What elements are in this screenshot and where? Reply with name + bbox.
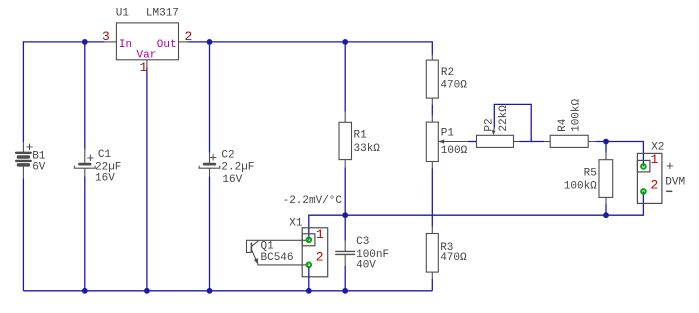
node junction C1 top rail <box>82 39 88 45</box>
connector X1 pin1 square <box>302 234 315 246</box>
potentiometer P2 body <box>477 135 514 147</box>
connector X2 pin1 square <box>637 160 650 172</box>
transistor Q1 emitter lead <box>251 250 257 265</box>
wire C2 top drop <box>209 42 211 153</box>
node ground junction Var <box>144 288 150 294</box>
wire ground bus <box>23 290 432 292</box>
svg-text:+: + <box>666 159 674 174</box>
wire R5 top from junction <box>605 142 607 153</box>
resistor R1 body <box>339 122 352 159</box>
wire R1 bottom to mid net <box>344 167 346 215</box>
wire mid net: X1 pin1 up, across to X2 pin2 <box>309 191 644 239</box>
svg-text:In: In <box>119 39 132 51</box>
wire X1 pin2 to ground bus <box>308 267 310 291</box>
node junction R1/C3 mid net <box>342 212 348 218</box>
svg-text:100Ω: 100Ω <box>441 145 468 157</box>
resistor R2 top stub <box>431 55 433 61</box>
battery B1 bottom stub <box>22 167 24 179</box>
wire U1 Var to ground bus <box>146 67 148 290</box>
capacitor C1 minus cup <box>74 166 95 168</box>
node ground junction X1 pin2 <box>306 288 312 294</box>
transistor Q1 emitter arrow <box>254 258 258 264</box>
connector X2 body <box>637 153 662 203</box>
svg-text:+: + <box>209 150 217 165</box>
resistor R2 body <box>426 60 438 98</box>
wire C3 to ground bus <box>344 266 346 291</box>
svg-text:2: 2 <box>316 249 324 264</box>
svg-text:P1: P1 <box>441 128 455 140</box>
svg-text:470Ω: 470Ω <box>440 252 467 264</box>
U1 pin stub In <box>105 41 117 43</box>
resistor R4 right stub <box>588 141 596 143</box>
resistor R5 top stub <box>605 153 607 160</box>
svg-text:33kΩ: 33kΩ <box>354 143 381 155</box>
svg-text:1: 1 <box>651 152 659 167</box>
capacitor C3 top stub <box>344 241 346 252</box>
P2 right stub <box>514 141 520 143</box>
transistor Q1 base bar <box>250 243 252 253</box>
battery B1 plates <box>15 152 32 167</box>
svg-text:16V: 16V <box>95 172 115 184</box>
wire C2 to ground bus <box>209 176 211 290</box>
potentiometer P2 wiper arrow <box>492 130 496 135</box>
svg-text:470Ω: 470Ω <box>440 80 467 92</box>
resistor R4 left stub <box>544 141 550 143</box>
capacitor C3 plate top <box>335 250 355 252</box>
svg-text:Q1: Q1 <box>261 240 275 252</box>
potentiometer P1 wiper lead <box>438 141 468 143</box>
X2 pin 2 pad <box>641 189 646 194</box>
svg-text:6V: 6V <box>32 162 46 174</box>
capacitor C2 minus cup <box>199 166 220 168</box>
op-amp U1 LM317 body <box>116 23 178 60</box>
wire R1 top drop <box>344 42 346 112</box>
X1 pin 2 pad <box>307 263 312 268</box>
wire top rail right: U1 Out to R2 <box>188 42 433 55</box>
svg-text:R4: R4 <box>557 118 569 132</box>
resistor R4 body <box>550 135 588 147</box>
connector X1 body <box>302 228 328 277</box>
wire P2 wiper loop to right end <box>494 104 531 141</box>
node junction C2 top rail <box>207 39 213 45</box>
node ground junction C1 <box>82 288 88 294</box>
svg-text:2.2µF: 2.2µF <box>221 161 254 173</box>
capacitor C1 bottom stub <box>84 168 86 176</box>
svg-text:22kΩ: 22kΩ <box>498 105 510 132</box>
svg-text:100kΩ: 100kΩ <box>571 98 583 131</box>
svg-text:1: 1 <box>316 227 324 242</box>
capacitor C2 plus plate <box>203 163 216 166</box>
capacitor C3 bottom stub <box>344 254 346 266</box>
node junction R5 bottom mid net <box>603 212 609 218</box>
U1 pin stub Out <box>179 41 188 43</box>
battery B1 top stub <box>22 142 24 152</box>
wire R4 to X2 pin1 <box>596 142 643 167</box>
potentiometer P1 top stub <box>431 116 433 123</box>
DVM minus sign <box>666 190 672 192</box>
transistor Q1 base/collector wire to X1 pin1 <box>247 240 309 252</box>
wire B1 minus to ground bus <box>22 178 24 290</box>
wire R5 bottom to mid net <box>605 205 607 216</box>
resistor R1 top stub <box>344 112 346 123</box>
wire C3 top from mid net <box>344 215 346 240</box>
svg-text:R5: R5 <box>584 168 597 180</box>
resistor R2 bottom stub <box>431 98 433 105</box>
svg-text:Out: Out <box>157 39 177 51</box>
X1 pin 1 pad <box>307 238 312 243</box>
svg-text:16V: 16V <box>222 174 242 186</box>
node junction R4/R5 <box>603 139 609 145</box>
wire C1 to ground bus <box>84 176 86 290</box>
transistor Q1 emitter wire to X1 pin2 <box>258 264 309 266</box>
svg-text:+: + <box>87 151 95 166</box>
svg-text:C1: C1 <box>98 149 112 161</box>
wire P2 to R4 <box>520 141 545 143</box>
svg-text:R2: R2 <box>441 67 454 79</box>
node ground junction C3 <box>342 288 348 294</box>
potentiometer P1 wiper arrow <box>438 139 444 143</box>
node junction R1 top rail <box>342 39 348 45</box>
U1 pin stub Var <box>146 60 148 68</box>
capacitor C1 top stub <box>84 149 86 163</box>
capacitor C3 plate bottom <box>335 253 355 255</box>
svg-text:100kΩ: 100kΩ <box>564 180 597 192</box>
X2 pin 1 pad <box>641 164 646 169</box>
svg-text:DVM: DVM <box>665 177 685 189</box>
resistor R3 body <box>426 234 438 273</box>
svg-text:40V: 40V <box>356 260 376 272</box>
resistor R3 bottom stub <box>431 272 433 279</box>
wire P1 bottom to R3 top <box>431 169 433 227</box>
svg-text:R1: R1 <box>354 129 368 141</box>
wire R2 to P1 <box>431 105 433 116</box>
capacitor C2 top stub <box>209 153 211 163</box>
svg-text:U1: U1 <box>116 8 130 20</box>
wire R3 bottom to ground bus <box>431 279 433 291</box>
resistor R5 bottom stub <box>605 197 607 204</box>
svg-text:C3: C3 <box>356 236 369 248</box>
svg-text:C2: C2 <box>221 149 234 161</box>
node ground junction C2 <box>207 288 213 294</box>
svg-text:2: 2 <box>651 178 659 193</box>
potentiometer P1 bottom stub <box>431 162 433 169</box>
potentiometer P2 wiper lead <box>493 128 496 132</box>
svg-text:X1: X1 <box>289 218 303 230</box>
resistor R1 bottom stub <box>344 160 346 168</box>
svg-text:BC546: BC546 <box>261 252 294 264</box>
svg-text:-2.2mV/°C: -2.2mV/°C <box>283 195 343 207</box>
capacitor C2 bottom stub <box>209 168 211 176</box>
wire top rail left: battery + to U1 In <box>23 42 104 142</box>
transistor Q1 collector lead <box>251 241 258 247</box>
svg-text:P2: P2 <box>484 118 496 131</box>
wire C1 top drop <box>84 42 86 149</box>
resistor R5 body <box>599 160 613 198</box>
capacitor C1 plus plate <box>78 163 91 166</box>
svg-text:LM317: LM317 <box>146 8 179 20</box>
resistor R3 top stub <box>431 227 433 234</box>
potentiometer P1 body <box>426 122 438 161</box>
wire P1 wiper to P2 <box>468 141 477 143</box>
